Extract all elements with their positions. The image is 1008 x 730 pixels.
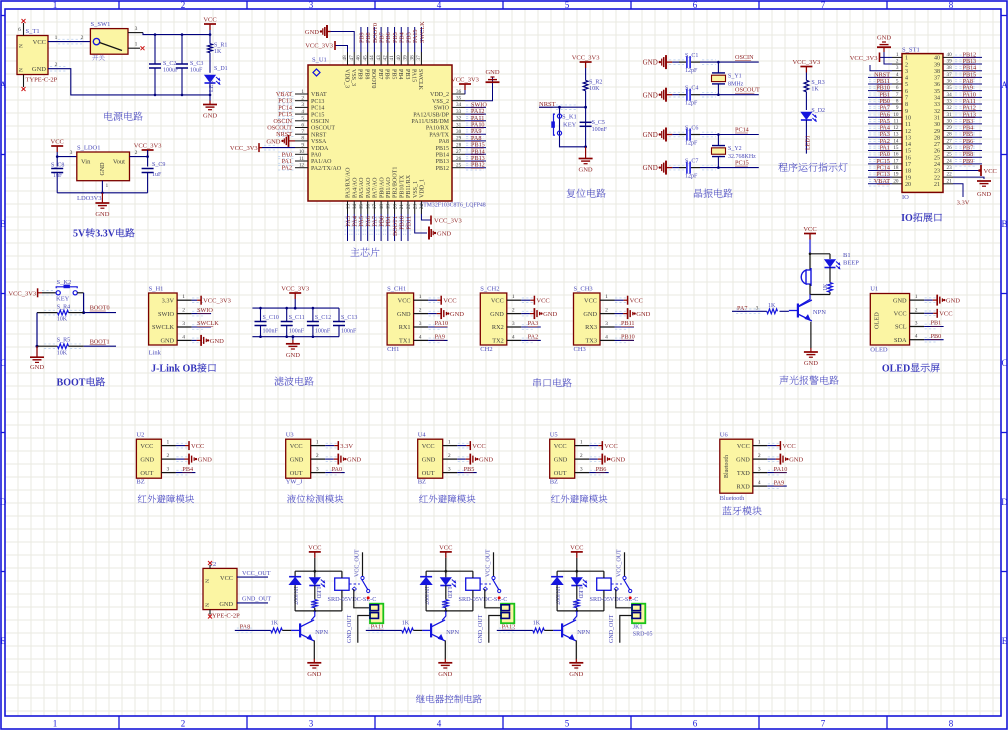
svg-text:BEEP: BEEP (843, 260, 859, 267)
svg-text:5: 5 (565, 719, 570, 729)
svg-text:11: 11 (905, 122, 911, 128)
svg-text:LED: LED (209, 80, 215, 92)
svg-text:48: 48 (342, 55, 348, 61)
svg-text:NRST: NRST (311, 132, 327, 138)
svg-text:S_C11: S_C11 (289, 315, 305, 321)
svg-text:VDD_2: VDD_2 (430, 92, 449, 98)
svg-text:2: 2 (512, 308, 515, 314)
svg-text:27: 27 (934, 142, 940, 148)
svg-text:4: 4 (182, 334, 185, 340)
svg-text:VCC_3V3: VCC_3V3 (305, 43, 333, 50)
svg-text:GND: GND (877, 35, 891, 42)
svg-text:6: 6 (693, 0, 698, 10)
svg-text:GND: GND (307, 671, 321, 678)
svg-text:CH1: CH1 (387, 346, 399, 353)
svg-text:3: 3 (758, 467, 761, 473)
svg-text:LED: LED (577, 587, 583, 598)
svg-text:1: 1 (580, 440, 583, 446)
svg-text:PB1/AO: PB1/AO (386, 177, 392, 198)
svg-text:S_C9: S_C9 (152, 162, 165, 168)
svg-text:28: 28 (947, 132, 953, 138)
svg-text:VCC: VCC (939, 311, 952, 318)
svg-text:1K: 1K (768, 303, 776, 309)
svg-text:25: 25 (934, 155, 940, 161)
svg-text:3: 3 (316, 467, 319, 473)
svg-text:21: 21 (947, 178, 953, 184)
svg-text:1: 1 (55, 35, 58, 41)
svg-text:15: 15 (359, 204, 365, 210)
svg-text:U4: U4 (418, 432, 427, 439)
svg-text:PB6: PB6 (384, 69, 390, 79)
svg-text:GND: GND (946, 298, 960, 305)
svg-text:S_CH1: S_CH1 (387, 286, 406, 293)
svg-text:PA1/AO: PA1/AO (311, 159, 332, 165)
svg-text:1: 1 (106, 183, 109, 189)
svg-text:VDD_3: VDD_3 (343, 69, 349, 88)
svg-text:20: 20 (905, 182, 911, 188)
svg-text:PB2/BOOT1: PB2/BOOT1 (393, 167, 399, 198)
svg-text:12: 12 (893, 125, 899, 131)
svg-text:3: 3 (896, 65, 899, 71)
svg-text:1uF: 1uF (152, 172, 162, 178)
svg-text:VCC_OUT: VCC_OUT (485, 549, 491, 577)
svg-text:GND: GND (636, 311, 650, 318)
svg-text:3: 3 (915, 321, 918, 327)
svg-text:100nF: 100nF (289, 329, 305, 335)
svg-text:4: 4 (758, 480, 761, 486)
svg-text:PA3: PA3 (528, 320, 538, 327)
svg-text:30: 30 (934, 122, 940, 128)
svg-text:S_R2: S_R2 (589, 80, 602, 86)
svg-text:VCC_3V3: VCC_3V3 (792, 59, 820, 66)
svg-text:VCC: VCC (782, 443, 795, 450)
svg-text:43: 43 (376, 55, 382, 61)
svg-text:24: 24 (934, 162, 940, 168)
svg-text:LED: LED (315, 587, 321, 598)
svg-text:7: 7 (896, 92, 899, 98)
svg-text:PA8: PA8 (439, 139, 449, 145)
svg-text:VBAT: VBAT (874, 178, 890, 185)
svg-text:32: 32 (934, 109, 940, 115)
svg-text:4: 4 (419, 334, 422, 340)
svg-text:2: 2 (905, 62, 908, 68)
svg-text:12pF: 12pF (685, 174, 698, 180)
svg-text:S_C13: S_C13 (341, 315, 357, 321)
svg-text:2: 2 (896, 59, 899, 65)
svg-text:VCC: VCC (439, 544, 452, 551)
svg-text:6: 6 (896, 85, 899, 91)
svg-text:GND: GND (210, 338, 224, 345)
svg-text:PA9/TX: PA9/TX (429, 132, 449, 138)
svg-text:31: 31 (947, 112, 953, 118)
svg-text:GND: GND (643, 164, 658, 172)
svg-text:VSS_3: VSS_3 (350, 69, 356, 86)
svg-text:41: 41 (389, 55, 395, 61)
svg-text:26: 26 (456, 156, 462, 162)
svg-text:RX1: RX1 (399, 324, 411, 331)
svg-text:1: 1 (905, 56, 908, 62)
svg-text:PB9: PB9 (963, 158, 974, 165)
svg-text:24: 24 (419, 204, 425, 210)
svg-text:SWIO: SWIO (434, 106, 450, 112)
svg-text:4: 4 (437, 719, 442, 729)
svg-text:SCL: SCL (895, 324, 907, 331)
svg-text:4: 4 (915, 334, 918, 340)
svg-text:PA9: PA9 (774, 479, 784, 486)
svg-text:19: 19 (386, 204, 392, 210)
svg-text:OSCIN: OSCIN (735, 54, 754, 61)
svg-text:1: 1 (896, 52, 899, 58)
svg-text:11: 11 (299, 156, 304, 162)
svg-text:16: 16 (893, 152, 899, 158)
svg-text:14: 14 (352, 204, 358, 210)
svg-text:1K: 1K (440, 601, 446, 609)
svg-text:3.3V: 3.3V (957, 200, 970, 207)
svg-text:VCC: VCC (894, 311, 907, 318)
svg-text:VSSA: VSSA (311, 139, 327, 145)
svg-text:2: 2 (135, 150, 138, 156)
svg-text:GND: GND (95, 211, 109, 218)
svg-text:34: 34 (456, 102, 462, 108)
svg-text:VCC: VCC (443, 298, 456, 305)
svg-text:NPN: NPN (446, 629, 459, 636)
svg-text:10: 10 (299, 149, 305, 155)
svg-text:8: 8 (896, 98, 899, 104)
svg-text:13: 13 (345, 204, 351, 210)
svg-text:U3: U3 (286, 432, 294, 439)
svg-text:U5: U5 (550, 432, 558, 439)
svg-text:8: 8 (905, 102, 908, 108)
svg-text:RX3: RX3 (585, 324, 597, 331)
svg-text:PA10: PA10 (435, 320, 449, 327)
svg-text:7: 7 (905, 96, 908, 102)
svg-text:PB4: PB4 (397, 69, 403, 79)
svg-text:BOOT0: BOOT0 (90, 305, 110, 312)
svg-text:3: 3 (309, 719, 314, 729)
svg-text:VCC: VCC (554, 443, 567, 450)
svg-text:BOOT0: BOOT0 (370, 69, 376, 88)
svg-text:VCC: VCC (220, 575, 233, 582)
svg-text:PA2/TX/AO: PA2/TX/AO (311, 166, 342, 172)
svg-text:VCC: VCC (51, 139, 64, 146)
svg-text:2: 2 (448, 453, 451, 459)
svg-text:5: 5 (896, 79, 899, 85)
svg-text:Vin: Vin (81, 159, 91, 166)
svg-text:N: N (19, 44, 25, 48)
svg-text:1: 1 (135, 42, 138, 48)
svg-text:9: 9 (905, 109, 908, 115)
svg-text:VCC: VCC (570, 544, 583, 551)
svg-text:S_H1: S_H1 (149, 286, 164, 293)
svg-text:GND: GND (579, 167, 593, 174)
svg-text:OLED: OLED (870, 347, 888, 354)
svg-text:PB13: PB13 (436, 159, 449, 165)
svg-text:PB10/TX: PB10/TX (399, 174, 405, 198)
svg-text:18: 18 (379, 204, 385, 210)
svg-text:2: 2 (81, 35, 84, 41)
svg-text:11: 11 (894, 118, 899, 124)
svg-text:S_R1: S_R1 (214, 43, 227, 49)
svg-text:BOOT1: BOOT1 (90, 338, 110, 345)
svg-text:6: 6 (693, 719, 698, 729)
svg-text:PA2: PA2 (282, 165, 292, 172)
svg-text:VCC: VCC (984, 168, 997, 175)
svg-text:S_R5: S_R5 (57, 338, 70, 344)
svg-text:1: 1 (182, 294, 185, 300)
svg-text:2: 2 (758, 453, 761, 459)
svg-text:1K: 1K (811, 87, 819, 93)
svg-text:GND: GND (611, 457, 625, 464)
svg-text:PC14: PC14 (735, 127, 749, 134)
svg-text:TX2: TX2 (492, 338, 504, 345)
svg-text:GND: GND (804, 360, 818, 367)
svg-text:15: 15 (893, 145, 899, 151)
svg-text:PA10: PA10 (774, 466, 788, 473)
svg-text:A: A (0, 80, 7, 90)
svg-text:17: 17 (372, 204, 378, 210)
svg-text:YW_J: YW_J (286, 479, 303, 486)
svg-text:8: 8 (949, 0, 954, 10)
svg-text:GND: GND (543, 311, 557, 318)
svg-text:PC14: PC14 (311, 106, 324, 112)
svg-text:GND: GND (789, 457, 803, 464)
svg-text:S_Y2: S_Y2 (728, 146, 742, 152)
svg-text:VCC_3V3: VCC_3V3 (134, 143, 162, 150)
svg-text:2: 2 (301, 96, 304, 102)
svg-text:1: 1 (915, 294, 918, 300)
svg-text:S_K1: S_K1 (562, 114, 577, 121)
svg-text:3: 3 (512, 321, 515, 327)
svg-text:TXD: TXD (737, 470, 750, 477)
svg-text:SWCLK: SWCLK (152, 324, 174, 331)
svg-text:GND: GND (643, 59, 658, 67)
svg-text:PA0: PA0 (311, 153, 321, 159)
svg-text:PB8: PB8 (363, 69, 369, 79)
svg-text:1K: 1K (402, 621, 410, 627)
svg-text:37: 37 (934, 76, 940, 82)
svg-text:GND: GND (438, 671, 452, 678)
svg-text:32: 32 (947, 105, 953, 111)
svg-text:3: 3 (135, 26, 138, 32)
svg-text:GND: GND (583, 311, 597, 318)
svg-text:SWCLK: SWCLK (197, 320, 219, 327)
svg-text:GND_OUT: GND_OUT (347, 614, 353, 643)
svg-text:27: 27 (947, 138, 953, 144)
svg-text:Link: Link (149, 350, 162, 357)
svg-text:PB5: PB5 (390, 69, 396, 79)
svg-text:TX3: TX3 (585, 338, 597, 345)
svg-text:S_U1: S_U1 (312, 57, 327, 64)
svg-text:VSS_1: VSS_1 (413, 181, 419, 198)
svg-text:36: 36 (947, 79, 953, 85)
svg-text:C: C (1001, 358, 1007, 368)
svg-text:GND: GND (977, 191, 991, 198)
svg-text:PB12: PB12 (471, 162, 485, 169)
svg-text:3.3V: 3.3V (162, 297, 175, 304)
svg-text:12pF: 12pF (685, 141, 698, 147)
svg-text:PB7: PB7 (377, 69, 383, 79)
svg-text:LED1: LED1 (805, 135, 811, 150)
svg-text:GND: GND (893, 297, 907, 304)
svg-text:22: 22 (947, 172, 953, 178)
svg-text:26: 26 (947, 145, 953, 151)
svg-text:GND_OUT: GND_OUT (478, 614, 484, 643)
svg-text:PB14: PB14 (436, 153, 449, 159)
svg-text:4: 4 (301, 109, 304, 115)
svg-text:34: 34 (947, 92, 953, 98)
svg-text:37: 37 (416, 55, 422, 61)
svg-text:38: 38 (947, 65, 953, 71)
svg-text:40: 40 (947, 52, 953, 58)
svg-text:GND: GND (437, 231, 451, 238)
svg-text:19: 19 (905, 175, 911, 181)
svg-text:4: 4 (896, 72, 899, 78)
svg-text:25: 25 (947, 152, 953, 158)
svg-text:1uF: 1uF (53, 173, 63, 179)
svg-text:GND: GND (305, 29, 319, 36)
svg-text:PA5/AO: PA5/AO (359, 177, 365, 198)
svg-text:BZ: BZ (550, 479, 558, 486)
svg-text:44: 44 (369, 55, 375, 61)
svg-text:STM32F103C8T6_LQFP48: STM32F103C8T6_LQFP48 (420, 203, 486, 209)
svg-text:PA8: PA8 (240, 624, 250, 631)
svg-text:22: 22 (934, 175, 940, 181)
svg-text:13: 13 (893, 132, 899, 138)
svg-text:S_C6: S_C6 (685, 126, 698, 132)
svg-text:PC13: PC13 (311, 99, 324, 105)
svg-text:33: 33 (934, 102, 940, 108)
svg-text:37: 37 (947, 72, 953, 78)
svg-text:PA0: PA0 (332, 466, 342, 473)
svg-text:1K: 1K (533, 621, 541, 627)
svg-text:2: 2 (167, 453, 170, 459)
svg-text:GND: GND (290, 456, 304, 463)
svg-text:1: 1 (419, 294, 422, 300)
svg-text:35: 35 (947, 85, 953, 91)
svg-text:CH3: CH3 (574, 346, 586, 353)
svg-text:20: 20 (392, 204, 398, 210)
svg-text:PA12: PA12 (502, 624, 516, 631)
svg-text:2: 2 (181, 719, 186, 729)
svg-text:GND: GND (32, 66, 46, 73)
svg-text:33: 33 (947, 98, 953, 104)
svg-text:Bluetooth: Bluetooth (724, 455, 730, 478)
svg-text:VCC: VCC (630, 298, 643, 305)
svg-text:3: 3 (448, 467, 451, 473)
svg-text:31: 31 (456, 122, 462, 128)
svg-text:S_Y1: S_Y1 (728, 73, 742, 79)
svg-text:VCC: VCC (803, 226, 816, 233)
svg-text:KEY: KEY (563, 122, 577, 129)
svg-text:VCC: VCC (491, 297, 504, 304)
svg-text:OUT: OUT (554, 470, 567, 477)
svg-text:1: 1 (316, 440, 319, 446)
svg-text:100nF: 100nF (315, 329, 331, 335)
svg-text:B: B (1001, 219, 1007, 229)
svg-text:VCC_3V3: VCC_3V3 (203, 298, 231, 305)
svg-text:3: 3 (605, 321, 608, 327)
svg-text:12: 12 (905, 129, 911, 135)
svg-text:39: 39 (934, 62, 940, 68)
svg-text:Vout: Vout (113, 159, 125, 166)
svg-text:VCC_3V3: VCC_3V3 (230, 145, 258, 152)
svg-text:21: 21 (399, 204, 405, 210)
svg-text:29: 29 (947, 125, 953, 131)
svg-text:E: E (0, 636, 6, 646)
svg-text:9: 9 (301, 142, 304, 148)
svg-text:47: 47 (349, 55, 355, 61)
svg-text:OSCOUT: OSCOUT (311, 126, 335, 132)
svg-text:VCC_OUT: VCC_OUT (242, 570, 271, 577)
svg-text:4: 4 (437, 0, 442, 10)
svg-text:GND: GND (30, 364, 44, 371)
svg-text:3: 3 (756, 306, 759, 312)
svg-text:32.768KHz: 32.768KHz (728, 154, 756, 160)
svg-text:IO: IO (902, 194, 909, 201)
svg-text:N: N (205, 603, 211, 607)
svg-text:NPN: NPN (315, 629, 328, 636)
svg-text:J-Link OB: J-Link OB (151, 364, 197, 375)
svg-text:100nF: 100nF (592, 127, 608, 133)
svg-text:PB5: PB5 (464, 466, 475, 473)
svg-text:GND: GND (160, 338, 174, 345)
svg-text:12pF: 12pF (685, 68, 698, 74)
svg-text:PA12/USB/DP: PA12/USB/DP (413, 112, 449, 118)
svg-text:BOOT: BOOT (57, 378, 86, 389)
svg-text:PA6/AO: PA6/AO (366, 177, 372, 198)
svg-text:29: 29 (934, 129, 940, 135)
svg-text:1: 1 (758, 440, 761, 446)
svg-text:23: 23 (413, 204, 419, 210)
svg-text:42: 42 (383, 55, 389, 61)
svg-text:N: N (205, 579, 211, 583)
svg-text:3: 3 (182, 321, 185, 327)
svg-text:VCC_3V3: VCC_3V3 (434, 217, 462, 224)
svg-text:100nF: 100nF (263, 329, 279, 335)
svg-text:1: 1 (301, 89, 304, 95)
svg-text:GND: GND (100, 162, 106, 176)
svg-text:8: 8 (301, 136, 304, 142)
svg-text:S_C7: S_C7 (685, 159, 698, 165)
svg-text:5: 5 (565, 0, 570, 10)
svg-text:PA10/RX: PA10/RX (426, 126, 450, 132)
svg-text:PA11: PA11 (371, 624, 384, 631)
svg-text:NPN: NPN (577, 629, 590, 636)
svg-text:33: 33 (456, 109, 462, 115)
svg-text:VCC_OUT: VCC_OUT (354, 549, 360, 577)
svg-text:38: 38 (934, 69, 940, 75)
svg-text:10uF: 10uF (190, 68, 203, 74)
svg-text:PB11/RX: PB11/RX (406, 174, 412, 198)
svg-text:B: B (0, 219, 6, 229)
svg-text:PB4: PB4 (182, 466, 193, 473)
svg-text:GND: GND (569, 671, 583, 678)
svg-text:32: 32 (456, 116, 462, 122)
svg-text:8MHz: 8MHz (728, 81, 744, 87)
svg-text:C: C (0, 358, 6, 368)
svg-text:16: 16 (365, 204, 371, 210)
svg-text:1K: 1K (823, 283, 829, 291)
svg-text:3: 3 (309, 0, 314, 10)
svg-text:S_LDO1: S_LDO1 (77, 145, 100, 152)
svg-text:PA9: PA9 (435, 334, 445, 341)
svg-text:38: 38 (409, 55, 415, 61)
svg-text:1: 1 (448, 440, 451, 446)
svg-text:D: D (1001, 497, 1008, 507)
svg-text:12: 12 (299, 163, 305, 169)
svg-text:TX1: TX1 (399, 338, 411, 345)
svg-text:18: 18 (893, 165, 899, 171)
